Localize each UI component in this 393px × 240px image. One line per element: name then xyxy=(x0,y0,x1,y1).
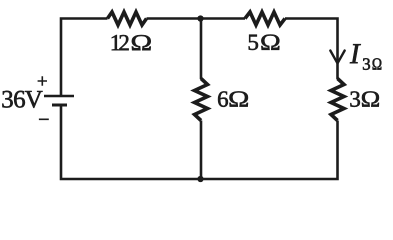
label 36V : letter V xyxy=(25,91,43,108)
wire bottom U run (battery - to 3ohm bottom) xyxy=(61,105,338,179)
label I subscript 3 xyxy=(363,58,370,70)
wire top-middle segment xyxy=(147,17,246,20)
resistor R3 6ohm zigzag xyxy=(195,79,208,121)
label 12ohm : omega xyxy=(132,35,151,50)
label 6ohm : digit 6 xyxy=(218,91,228,106)
node junction dot bottom (middle branch to bottom wire) xyxy=(197,176,203,182)
battery V1 36V short plate (-) xyxy=(52,104,67,107)
wire top-right corner run xyxy=(285,19,338,80)
label 3ohm : digit 3 xyxy=(350,91,360,106)
label 36V : digit 3 xyxy=(2,91,12,108)
wire top-left corner run (node A to battery +) xyxy=(61,19,108,97)
resistor R2 5ohm zigzag xyxy=(245,12,285,25)
wire middle branch upper xyxy=(200,19,203,80)
label 12ohm : digit 2 xyxy=(119,35,128,50)
label 5ohm : digit 5 xyxy=(249,35,258,50)
label 5ohm : omega xyxy=(261,35,279,50)
label current I italic xyxy=(350,44,361,63)
label 36V : digit 6 xyxy=(14,91,25,108)
resistor R1 12ohm zigzag xyxy=(108,12,147,25)
battery V1 36V long plate (+) xyxy=(44,95,74,98)
wire middle branch lower xyxy=(200,121,203,180)
node junction dot top (between 12ohm and 5ohm) xyxy=(197,15,203,21)
label 6ohm : omega xyxy=(230,91,248,106)
resistor R4 3ohm zigzag xyxy=(331,79,344,121)
battery minus sign xyxy=(39,119,48,120)
label 12ohm : digit 1 xyxy=(112,35,120,50)
current arrow I3ohm head (down the right branch) xyxy=(330,51,344,64)
label I subscript omega xyxy=(373,58,382,69)
battery plus sign xyxy=(38,77,47,86)
label 3ohm : omega xyxy=(362,91,379,106)
